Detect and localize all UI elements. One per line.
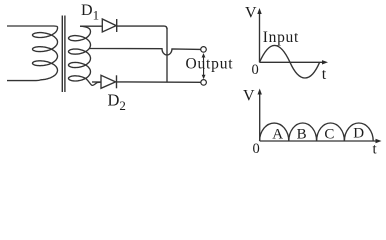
output waveform hump A [260, 123, 289, 141]
input sine waveform [260, 45, 320, 78]
diode D2 [101, 75, 117, 88]
svg-text:0: 0 [253, 141, 260, 157]
wire D1 cathode to top-right corner [117, 26, 167, 29]
svg-text:0: 0 [252, 62, 259, 78]
output graph t axis [260, 139, 382, 143]
output waveform hump C [317, 123, 345, 141]
inductor secondary winding [69, 26, 102, 85]
svg-text:V: V [245, 5, 257, 22]
svg-text:t: t [322, 66, 327, 83]
wire center tap with hop over vertical wire [89, 49, 201, 56]
output graph V axis [258, 89, 262, 142]
input graph V axis [257, 8, 261, 62]
label D1 [81, 2, 99, 22]
svg-text:D1: D1 [81, 2, 99, 22]
output waveform hump D [344, 123, 373, 141]
label Output [186, 56, 234, 73]
label D2 [108, 91, 126, 114]
wire vertical junction D1 to bottom rail [166, 28, 168, 82]
svg-text:V: V [243, 88, 255, 105]
svg-text:Input: Input [263, 29, 299, 46]
wire secondary top rail to D1 anode [80, 25, 103, 27]
wire D2 cathode to bottom terminal [117, 81, 201, 83]
svg-text:C: C [324, 127, 334, 143]
output waveform hump B [289, 123, 317, 141]
svg-text:D: D [353, 126, 364, 142]
input graph t axis [260, 60, 329, 64]
wire primary input top [7, 25, 54, 27]
inductor primary winding [33, 26, 58, 81]
wire bottom rail secondary to D2 [92, 81, 101, 83]
transformer core [62, 16, 65, 93]
arrow span between output terminals [202, 53, 206, 79]
wire primary input bottom [7, 80, 36, 82]
terminal output top [201, 47, 207, 53]
svg-text:Output: Output [186, 56, 234, 73]
terminal output bottom [201, 80, 207, 86]
svg-text:A: A [272, 127, 283, 143]
svg-text:t: t [373, 142, 378, 158]
diode D1 [102, 19, 116, 32]
svg-text:D2: D2 [108, 91, 126, 114]
svg-text:B: B [297, 127, 307, 143]
